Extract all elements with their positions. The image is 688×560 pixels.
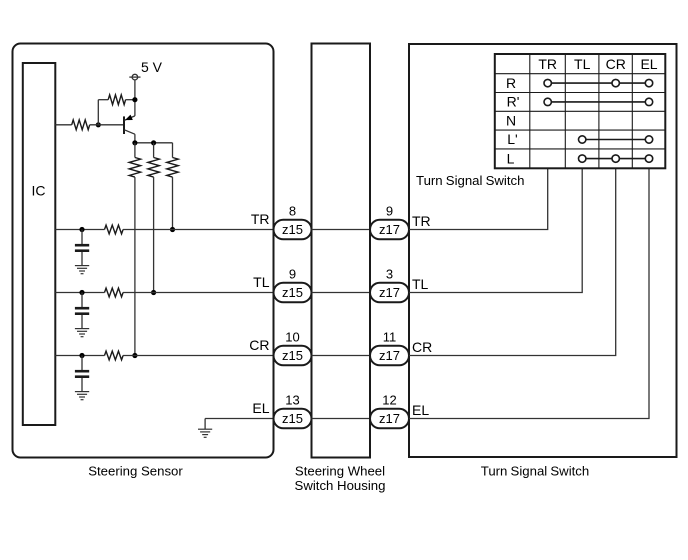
IC U1: [23, 63, 56, 425]
svg-text:z17: z17: [379, 222, 400, 237]
resistor R4 (pull-up to TL): [148, 143, 159, 293]
node base junction: [96, 122, 101, 127]
wire IC to base resistor: [55, 124, 71, 126]
wire CR left: [55, 355, 104, 357]
capacitor C2: [75, 293, 89, 329]
Steering Wheel Switch Housing box: [312, 44, 371, 458]
svg-text:CR: CR: [249, 337, 269, 353]
wire TR through housing: [312, 229, 371, 231]
Turn Signal Switch box: [409, 44, 677, 457]
capacitor C1: [75, 230, 89, 266]
svg-text:TR: TR: [538, 56, 557, 72]
net labels left: TR TL CR EL: [249, 211, 269, 416]
wire TL left: [55, 292, 104, 294]
svg-text:TL: TL: [574, 56, 591, 72]
connector z17 pin 3: [370, 283, 409, 303]
table row labels: R R' N L' L: [506, 75, 519, 167]
resistor R2 (base): [72, 120, 90, 130]
svg-text:EL: EL: [640, 56, 657, 72]
resistor R3 (pull-up to CR): [129, 143, 140, 356]
svg-text:CR: CR: [606, 56, 626, 72]
connector z17 pin 12: [370, 409, 409, 429]
resistor R8 (CR series): [105, 351, 124, 360]
svg-text:11: 11: [383, 330, 397, 345]
wire CR through housing: [312, 355, 371, 357]
net labels right: TR TL CR EL: [412, 213, 432, 418]
node CR cap junction: [79, 353, 84, 358]
svg-text:Turn Signal Switch: Turn Signal Switch: [416, 173, 524, 188]
wire feedback right: [126, 99, 136, 101]
wire CR to switch: [409, 168, 616, 355]
connector z17 pin 11: [370, 346, 409, 366]
wire feedback vertical: [97, 100, 99, 125]
svg-text:IC: IC: [32, 183, 46, 199]
wire TR to connector: [123, 229, 274, 231]
wire EL to connector: [205, 418, 273, 420]
svg-text:z15: z15: [282, 285, 303, 300]
transistor Q1 (PNP): [124, 115, 135, 143]
switch state table: [495, 54, 666, 168]
svg-text:z15: z15: [282, 411, 303, 426]
svg-text:z17: z17: [379, 348, 400, 363]
wire EL through housing: [312, 418, 371, 420]
wire TL to switch: [409, 168, 582, 292]
svg-text:3: 3: [386, 267, 393, 282]
wire 5V rail vertical: [134, 80, 136, 116]
switch contacts row L: [579, 155, 653, 162]
wire CR to connector: [123, 355, 274, 357]
ground (C1): [75, 266, 89, 274]
resistor R7 (TL series): [105, 288, 124, 297]
ground (EL): [198, 419, 212, 438]
svg-text:10: 10: [285, 330, 299, 345]
node TR cap junction: [79, 227, 84, 232]
node TL pull-up junction: [151, 290, 156, 295]
wire base resistor to transistor: [90, 124, 124, 126]
wire TL through housing: [312, 292, 371, 294]
svg-text:R': R': [507, 94, 520, 110]
connector z15 pin 10: [274, 346, 312, 366]
svg-text:EL: EL: [252, 400, 269, 416]
switch contacts row R': [544, 98, 653, 105]
node 5V rail junction: [132, 97, 137, 102]
svg-text:Steering Wheel: Steering Wheel: [295, 464, 385, 479]
svg-text:z17: z17: [379, 285, 400, 300]
wire TR left: [55, 229, 104, 231]
labels z15: [282, 222, 303, 426]
capacitor C3: [75, 356, 89, 392]
connector z17 pin 9: [370, 220, 409, 240]
Steering Sensor box: [13, 44, 274, 458]
pin numbers z15: 8 9 10 13: [285, 204, 299, 408]
switch contacts row R: [544, 79, 653, 86]
pin numbers z17: 9 3 11 12: [382, 204, 396, 408]
resistor R5 (pull-up to TR): [167, 143, 178, 230]
connector z15 pin 8: [274, 220, 312, 240]
ground (C2): [75, 329, 89, 337]
node collector junction 2: [151, 140, 156, 145]
svg-text:9: 9: [386, 204, 393, 219]
switch contacts row L': [579, 136, 653, 143]
svg-text:Switch Housing: Switch Housing: [295, 478, 386, 493]
svg-text:12: 12: [382, 393, 396, 408]
svg-text:TR: TR: [412, 213, 431, 229]
node TL cap junction: [79, 290, 84, 295]
wire TL to connector: [123, 292, 274, 294]
svg-text:EL: EL: [412, 402, 429, 418]
wire EL to switch: [409, 168, 649, 418]
svg-text:R: R: [506, 75, 516, 91]
svg-text:5 V: 5 V: [141, 59, 163, 75]
table header labels: TR TL CR EL: [538, 56, 657, 72]
svg-text:TL: TL: [253, 274, 270, 290]
svg-text:L: L: [507, 150, 515, 166]
node TR pull-up junction: [170, 227, 175, 232]
wire feedback left: [98, 99, 108, 101]
wire collector rail: [135, 142, 173, 144]
connector z15 pin 13: [274, 409, 312, 429]
svg-text:z17: z17: [379, 411, 400, 426]
svg-text:Turn Signal Switch: Turn Signal Switch: [481, 464, 589, 479]
svg-text:z15: z15: [282, 348, 303, 363]
svg-text:Steering Sensor: Steering Sensor: [88, 464, 183, 479]
node CR pull-up junction: [132, 353, 137, 358]
svg-text:TR: TR: [251, 211, 270, 227]
svg-text:L': L': [507, 131, 517, 147]
svg-text:13: 13: [285, 393, 299, 408]
svg-text:8: 8: [289, 204, 296, 219]
svg-text:N: N: [506, 112, 516, 128]
labels z17: [379, 222, 400, 426]
resistor R1 (base-emitter feedback): [108, 95, 125, 105]
node collector junction 1: [132, 140, 137, 145]
5V supply terminal: [129, 74, 140, 80]
svg-text:CR: CR: [412, 339, 432, 355]
ground (C3): [75, 392, 89, 400]
resistor R6 (TR series): [105, 225, 124, 234]
svg-text:9: 9: [289, 267, 296, 282]
svg-text:TL: TL: [412, 276, 429, 292]
wire TR to switch: [409, 168, 548, 229]
svg-text:z15: z15: [282, 222, 303, 237]
connector z15 pin 9: [274, 283, 312, 303]
